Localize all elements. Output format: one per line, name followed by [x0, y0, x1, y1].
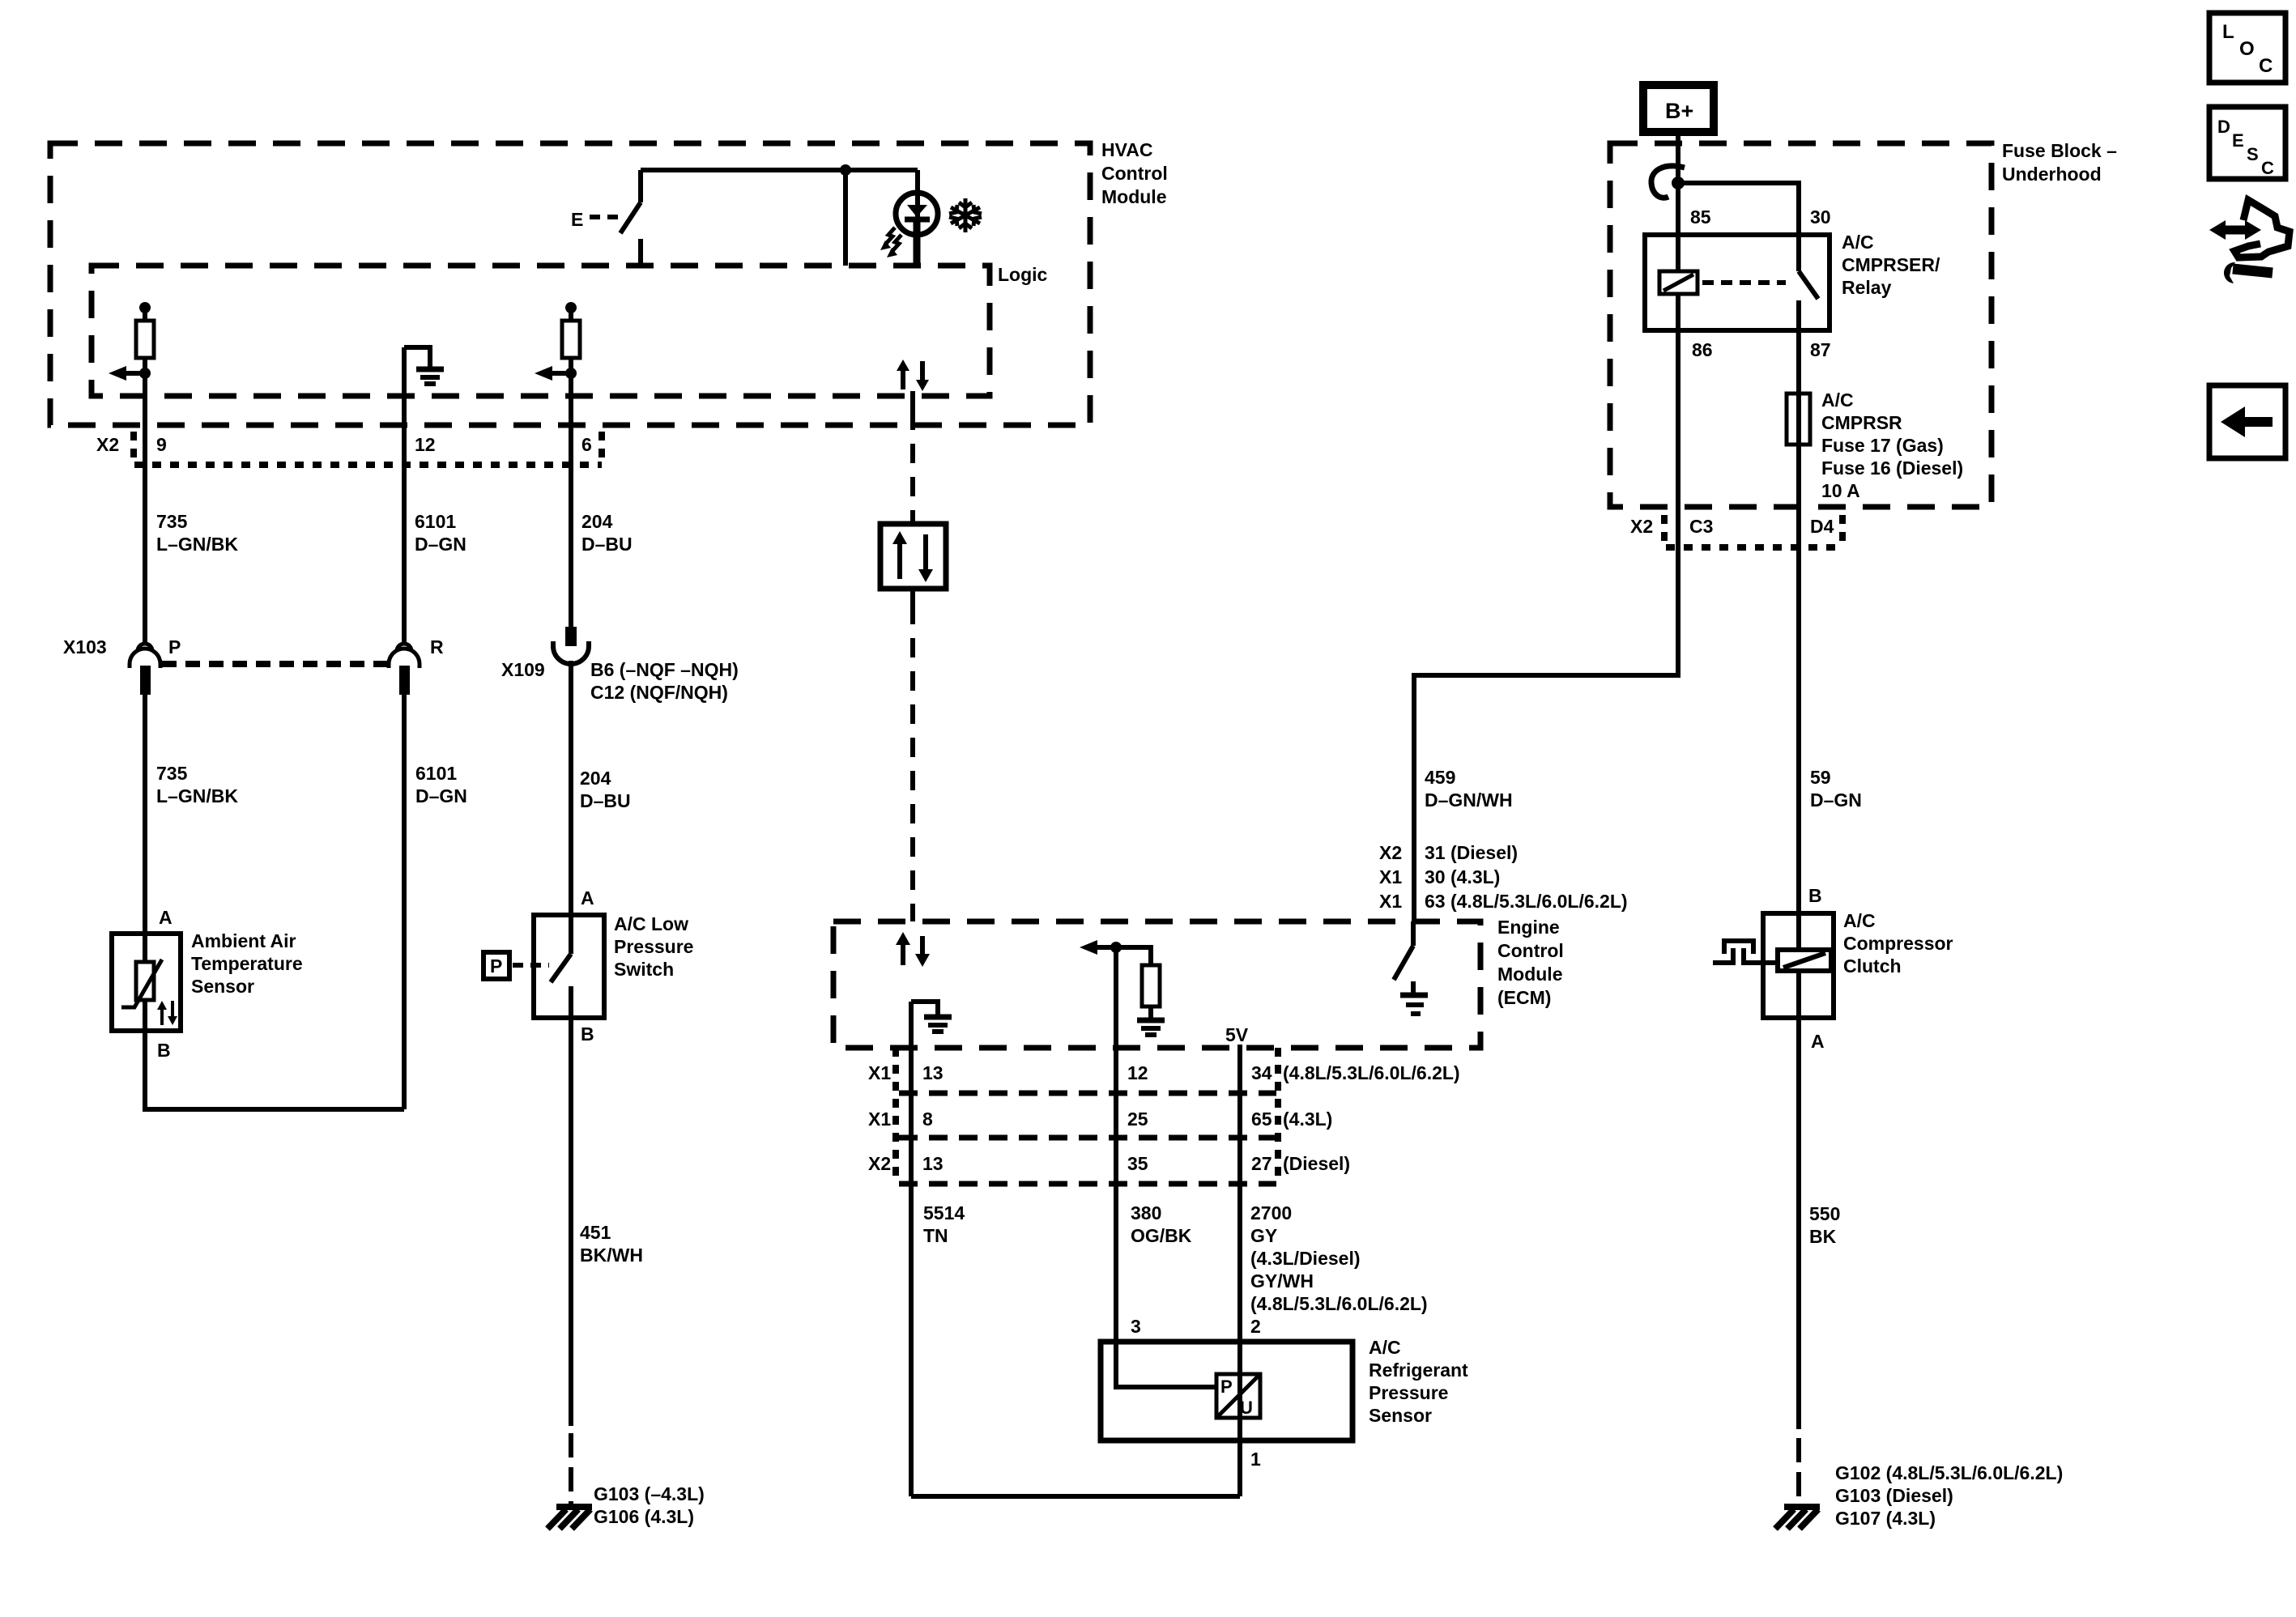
connector X109 labels [501, 659, 739, 703]
sensor ground return wire [911, 1494, 1240, 1499]
svg-text:Module: Module [1497, 964, 1563, 985]
wire 550 dashed end [1796, 1438, 1801, 1504]
pin 1 label [1250, 1449, 1261, 1470]
pin A label (clutch) [1811, 1031, 1825, 1052]
thermistor variable arrows [160, 1007, 164, 1025]
ECM internal resistor (pin 12) [1116, 947, 1151, 965]
svg-text:A/C: A/C [1821, 389, 1854, 411]
svg-text:13: 13 [922, 1062, 944, 1083]
ECM pin labels row 1 [868, 1062, 1460, 1083]
svg-text:A/C: A/C [1843, 910, 1876, 931]
label 380 OG/BK [1131, 1202, 1192, 1246]
wire 380 through ECM [1114, 947, 1118, 1048]
relay actuation dashed link [1702, 280, 1786, 285]
pin B label (low pressure switch) [581, 1023, 594, 1045]
svg-text:G102 (4.8L/5.3L/6.0L/6.2L): G102 (4.8L/5.3L/6.0L/6.2L) [1835, 1462, 2063, 1483]
svg-text:G106 (4.3L): G106 (4.3L) [594, 1506, 694, 1527]
svg-text:C3: C3 [1689, 516, 1713, 537]
svg-text:Underhood: Underhood [2002, 164, 2102, 185]
pin 87 label [1810, 339, 1831, 360]
svg-text:Sensor: Sensor [191, 976, 254, 997]
5V label [1225, 1024, 1249, 1045]
svg-text:Control: Control [1497, 940, 1564, 961]
A/C refrigerant pressure sensor label [1369, 1337, 1468, 1426]
clutch mechanical link [1713, 948, 1733, 963]
A/C compressor clutch box [1763, 913, 1834, 1018]
svg-text:GY/WH: GY/WH [1250, 1270, 1314, 1291]
svg-text:(4.3L): (4.3L) [1283, 1108, 1332, 1130]
svg-text:CMPRSR: CMPRSR [1821, 412, 1902, 433]
B+ node [1643, 85, 1714, 132]
svg-text:Engine: Engine [1497, 917, 1560, 938]
A/C low pressure switch label [614, 913, 693, 980]
svg-text:30 (4.3L): 30 (4.3L) [1425, 866, 1500, 887]
svg-text:31 (Diesel): 31 (Diesel) [1425, 842, 1518, 863]
wire 735 lower segment [143, 695, 147, 934]
svg-text:12: 12 [1127, 1062, 1148, 1083]
junction dot [840, 164, 851, 176]
svg-text:B: B [1808, 885, 1822, 906]
svg-text:D4: D4 [1810, 516, 1834, 537]
svg-text:X1: X1 [868, 1108, 891, 1130]
ECM box [833, 921, 1480, 1048]
wire 451 dashed end [569, 1433, 573, 1504]
ECM pin variant labels [1379, 842, 1518, 863]
svg-text:380: 380 [1131, 1202, 1161, 1223]
ECM pin labels row 2 [868, 1108, 1332, 1130]
wire 735 upper segment [143, 373, 147, 642]
back arrow icon [2209, 385, 2285, 458]
svg-text:Pressure: Pressure [1369, 1382, 1448, 1403]
resistor R2 (HVAC pull-up, pin 6) [565, 302, 577, 313]
svg-text:X2: X2 [868, 1153, 891, 1174]
wire 59 D-GN [1796, 507, 1801, 913]
connector repair icon [2222, 226, 2248, 235]
pin B label (clutch) [1808, 885, 1822, 906]
ECM connector rows [892, 1048, 899, 1184]
label 451 BK/WH [580, 1222, 643, 1266]
serial data wire (dashed) [910, 391, 915, 411]
svg-text:6101: 6101 [415, 763, 457, 784]
svg-text:G107 (4.3L): G107 (4.3L) [1835, 1508, 1936, 1529]
relay switch [1796, 235, 1801, 271]
DESC icon [2209, 107, 2285, 179]
svg-text:35: 35 [1127, 1153, 1148, 1174]
svg-text:Logic: Logic [998, 264, 1048, 285]
svg-text:(4.8L/5.3L/6.0L/6.2L): (4.8L/5.3L/6.0L/6.2L) [1250, 1293, 1428, 1314]
svg-text:(Diesel): (Diesel) [1283, 1153, 1350, 1174]
A/C low pressure switch box [534, 915, 604, 1018]
svg-text:1: 1 [1250, 1449, 1261, 1470]
splice crimp symbol [1651, 166, 1685, 198]
svg-text:X1: X1 [1379, 891, 1402, 912]
svg-text:P: P [168, 636, 181, 657]
label 735 L-GN/BK lower [156, 763, 238, 806]
label 5514 TN [923, 1202, 965, 1246]
svg-text:12: 12 [415, 434, 436, 455]
svg-text:G103 (Diesel): G103 (Diesel) [1835, 1485, 1953, 1506]
svg-text:Compressor: Compressor [1843, 933, 1953, 954]
ambient air temperature sensor label [191, 930, 303, 997]
serial data wire lower (dashed) [910, 589, 915, 605]
svg-text:3: 3 [1131, 1316, 1141, 1337]
svg-text:59: 59 [1810, 767, 1831, 788]
svg-text:9: 9 [156, 434, 167, 455]
pin 2 label [1250, 1316, 1261, 1337]
ECM label [1497, 917, 1564, 1008]
svg-text:27: 27 [1251, 1153, 1272, 1174]
wire B+ to relay [1676, 132, 1680, 235]
svg-text:65: 65 [1251, 1108, 1272, 1130]
svg-text:C: C [2259, 55, 2273, 77]
svg-text:A: A [1811, 1031, 1825, 1052]
svg-text:B: B [581, 1023, 594, 1045]
svg-text:459: 459 [1425, 767, 1455, 788]
wire 459 D-GN/WH [1414, 507, 1678, 921]
svg-text:A: A [581, 887, 594, 908]
svg-text:735: 735 [156, 511, 188, 532]
svg-text:B: B [157, 1040, 171, 1061]
ground G102/G103/G107 labels [1835, 1462, 2063, 1529]
P actuator dashed link [513, 963, 549, 968]
A/C CMPRSER relay box [1645, 235, 1830, 330]
label 59 D-GN [1810, 767, 1862, 811]
P/U transducer symbol [1216, 1374, 1260, 1418]
serial data arrows (logic) [901, 369, 905, 389]
A/C CMPRSR fuse [1787, 394, 1810, 445]
wire relay 87 to fuse [1796, 330, 1801, 507]
svg-text:34: 34 [1251, 1062, 1272, 1083]
svg-text:E: E [2232, 130, 2244, 151]
ambient air temperature sensor box [112, 934, 181, 1031]
svg-text:X1: X1 [1379, 866, 1402, 887]
svg-text:Temperature: Temperature [191, 953, 303, 974]
wire 204 upper segment [569, 373, 573, 627]
P actuator box [483, 952, 509, 979]
svg-text:B6 (–NQF –NQH): B6 (–NQF –NQH) [590, 659, 739, 680]
connector X103 terminal R [389, 644, 420, 668]
svg-text:D–GN/WH: D–GN/WH [1425, 789, 1513, 811]
ECM internal switch to ground (pin 63) [1411, 921, 1416, 946]
svg-text:G103 (–4.3L): G103 (–4.3L) [594, 1483, 705, 1504]
svg-text:R: R [430, 636, 444, 657]
svg-text:5V: 5V [1225, 1024, 1249, 1045]
A/C CMPRSER relay label [1842, 232, 1940, 298]
svg-text:Ambient Air: Ambient Air [191, 930, 296, 951]
svg-text:X103: X103 [63, 636, 107, 657]
svg-text:D–BU: D–BU [581, 534, 633, 555]
svg-text:D–BU: D–BU [580, 790, 631, 811]
sensor internal wire (pin 3) [1116, 1342, 1216, 1387]
svg-text:GY: GY [1250, 1225, 1277, 1246]
connector X109 terminal [565, 627, 577, 646]
svg-text:10 A: 10 A [1821, 480, 1860, 501]
ground G102/G103/G107 symbol [1784, 1504, 1820, 1510]
svg-text:X109: X109 [501, 659, 545, 680]
pin A label (low pressure switch) [581, 887, 594, 908]
Logic box [92, 266, 990, 396]
svg-text:A/C: A/C [1369, 1337, 1401, 1358]
wire 6101 upper segment [402, 347, 407, 642]
thermistor [143, 934, 147, 962]
pin A label (ambient sensor) [159, 907, 173, 928]
wire 2700 GY [1237, 1045, 1242, 1496]
label 459 D-GN/WH [1425, 767, 1513, 811]
svg-text:Fuse 16 (Diesel): Fuse 16 (Diesel) [1821, 457, 1963, 479]
svg-text:204: 204 [580, 768, 611, 789]
svg-text:2700: 2700 [1250, 1202, 1292, 1223]
svg-text:Refrigerant: Refrigerant [1369, 1360, 1468, 1381]
svg-text:B+: B+ [1665, 99, 1693, 123]
svg-text:Sensor: Sensor [1369, 1405, 1432, 1426]
wire top horizontal (switch to LED) [641, 168, 918, 172]
pin 86 label [1692, 339, 1713, 360]
svg-text:Fuse 17 (Gas): Fuse 17 (Gas) [1821, 435, 1944, 456]
A/C compressor clutch label [1843, 910, 1953, 977]
svg-text:BK/WH: BK/WH [580, 1245, 643, 1266]
svg-text:Fuse Block –: Fuse Block – [2002, 140, 2117, 161]
svg-text:X2: X2 [1379, 842, 1402, 863]
label 6101 D-GN upper [415, 511, 466, 555]
wire 204 lower segment [569, 661, 573, 915]
svg-text:30: 30 [1810, 206, 1831, 228]
svg-text:P: P [1220, 1377, 1233, 1397]
svg-text:BK: BK [1809, 1226, 1837, 1247]
svg-text:X2: X2 [96, 434, 119, 455]
svg-text:D–GN: D–GN [415, 534, 466, 555]
svg-text:8: 8 [922, 1108, 933, 1130]
svg-text:U: U [1240, 1398, 1253, 1418]
svg-text:L–GN/BK: L–GN/BK [156, 534, 238, 555]
ground (HVAC logic, pin 12) [404, 347, 430, 367]
serial data arrows (ECM) [901, 943, 905, 965]
svg-text:A/C Low: A/C Low [614, 913, 688, 934]
fuse block underhood label [2002, 140, 2117, 185]
HVAC connector row X2 [134, 462, 602, 468]
relay coil [1676, 235, 1680, 271]
label 6101 D-GN lower [415, 763, 467, 806]
fuse block underhood box [1610, 143, 1991, 507]
svg-text:63 (4.8L/5.3L/6.0L/6.2L): 63 (4.8L/5.3L/6.0L/6.2L) [1425, 891, 1628, 912]
svg-text:HVAC: HVAC [1101, 139, 1152, 160]
svg-text:(4.3L/Diesel): (4.3L/Diesel) [1250, 1248, 1361, 1269]
svg-text:D–GN: D–GN [415, 785, 467, 806]
svg-text:(ECM): (ECM) [1497, 987, 1551, 1008]
svg-text:Module: Module [1101, 186, 1167, 207]
label 204 D-BU upper [581, 511, 633, 555]
fuse block connector row [1666, 544, 1842, 551]
Logic label [998, 264, 1048, 285]
svg-text:L–GN/BK: L–GN/BK [156, 785, 238, 806]
svg-text:204: 204 [581, 511, 613, 532]
svg-text:2: 2 [1250, 1316, 1261, 1337]
svg-text:O: O [2239, 38, 2255, 60]
svg-text:Clutch: Clutch [1843, 955, 1902, 977]
ECM internal ground (pin 13) [911, 1002, 938, 1015]
svg-text:85: 85 [1690, 206, 1711, 228]
svg-text:A/C: A/C [1842, 232, 1874, 253]
svg-text:Pressure: Pressure [614, 936, 693, 957]
svg-text:Control: Control [1101, 163, 1168, 184]
svg-text:OG/BK: OG/BK [1131, 1225, 1192, 1246]
low pressure switch contacts [569, 915, 573, 954]
svg-text:S: S [2247, 144, 2259, 164]
svg-text:550: 550 [1809, 1203, 1840, 1224]
svg-text:TN: TN [923, 1225, 948, 1246]
wire sensor return loop [145, 1031, 404, 1109]
pin 30 label [1810, 206, 1831, 228]
pin B label (ambient sensor) [157, 1040, 171, 1061]
svg-text:X1: X1 [868, 1062, 891, 1083]
svg-text:C12 (NQF/NQH): C12 (NQF/NQH) [590, 682, 728, 703]
LED indicator [915, 170, 920, 217]
LED photon arrows [885, 228, 895, 245]
svg-text:6101: 6101 [415, 511, 456, 532]
snowflake icon [949, 198, 982, 232]
label 204 D-BU lower [580, 768, 631, 811]
svg-text:CMPRSER/: CMPRSER/ [1842, 254, 1940, 275]
svg-text:5514: 5514 [923, 1202, 965, 1223]
svg-text:D–GN: D–GN [1810, 789, 1862, 811]
connector X103 dashed line [162, 661, 387, 667]
svg-text:C: C [2261, 158, 2274, 178]
label 550 BK [1809, 1203, 1840, 1247]
svg-text:Relay: Relay [1842, 277, 1892, 298]
connector X103 labels [63, 636, 444, 657]
HVAC Control Module box [50, 143, 1090, 425]
A/C refrigerant pressure sensor box [1101, 1342, 1352, 1440]
ECM pin labels row 3 [868, 1153, 1350, 1174]
clutch coil [1796, 913, 1801, 950]
svg-text:E: E [571, 209, 583, 230]
wire splice to pin 30 [1678, 183, 1799, 235]
svg-text:25: 25 [1127, 1108, 1148, 1130]
svg-text:13: 13 [922, 1153, 944, 1174]
svg-text:735: 735 [156, 763, 188, 784]
LOC icon [2209, 13, 2285, 83]
wire 5514 TN [909, 1048, 914, 1496]
wire vertical from junction to logic box [843, 170, 848, 266]
resistor R1 (HVAC pull-up, pin 9) [139, 302, 151, 313]
connector X103 terminal P [130, 644, 160, 668]
wire 380 OG/BK [1114, 1048, 1118, 1387]
label 735 L-GN/BK upper [156, 511, 238, 555]
wire 451 BK/WH [569, 1018, 573, 1426]
switch E (A/C request) [571, 209, 583, 230]
svg-text:A: A [159, 907, 173, 928]
svg-text:(4.8L/5.3L/6.0L/6.2L): (4.8L/5.3L/6.0L/6.2L) [1283, 1062, 1460, 1083]
svg-text:451: 451 [580, 1222, 611, 1243]
wire 6101 lower segment [402, 695, 407, 1109]
ground G103/G106 symbol [556, 1504, 592, 1510]
svg-text:D: D [2217, 117, 2230, 137]
svg-text:Switch: Switch [614, 959, 674, 980]
svg-text:86: 86 [1692, 339, 1713, 360]
svg-text:87: 87 [1810, 339, 1831, 360]
HVAC Control Module label [1101, 139, 1168, 207]
svg-text:X2: X2 [1630, 516, 1653, 537]
wire relay 86 to C3 [1676, 330, 1680, 507]
pin 3 label [1131, 1316, 1141, 1337]
wire 5514 through ECM [909, 1002, 914, 1048]
ground G103/G106 labels [594, 1483, 705, 1527]
label 2700 GY [1250, 1202, 1428, 1314]
serial data symbol box [880, 524, 946, 589]
svg-text:P: P [490, 955, 502, 977]
pin 85 label [1690, 206, 1711, 228]
wire 550 BK [1796, 1018, 1801, 1429]
svg-text:L: L [2222, 21, 2234, 43]
A/C CMPRSR fuse label [1821, 389, 1963, 501]
svg-text:6: 6 [581, 434, 592, 455]
